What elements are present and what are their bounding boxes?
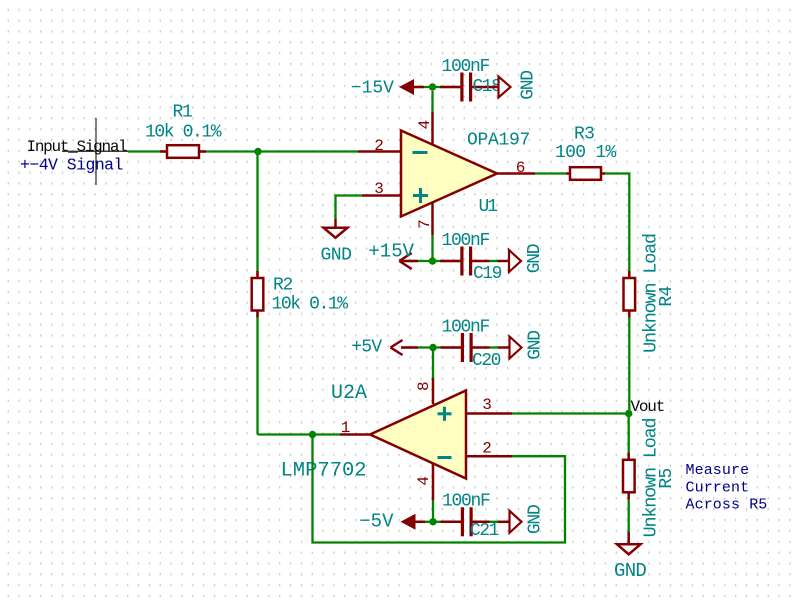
wire input net bbox=[62, 150, 358, 152]
wire C20 to GND flag bbox=[490, 346, 499, 348]
op-amp U2A pin 4 bbox=[432, 462, 435, 500]
wire feedback loop bbox=[313, 435, 566, 543]
svg-text:Vout: Vout bbox=[631, 398, 665, 416]
junction -5V node bbox=[429, 518, 436, 525]
svg-text:GND: GND bbox=[525, 244, 545, 273]
wire R2 branch bbox=[256, 152, 258, 435]
wire R5 to GND bbox=[628, 500, 630, 533]
resistor R2 bbox=[252, 271, 264, 318]
svg-text:GND: GND bbox=[519, 71, 539, 100]
junction +5V node bbox=[429, 344, 436, 351]
wire U2A pin3 to Vout bbox=[512, 412, 629, 414]
svg-text:100 1%: 100 1% bbox=[555, 143, 617, 163]
svg-text:C19: C19 bbox=[473, 264, 502, 284]
resistor R4 bbox=[624, 271, 636, 318]
resistor R3 bbox=[566, 167, 605, 180]
svg-text:+−4V Signal: +−4V Signal bbox=[20, 156, 123, 175]
ground flag (C21) bbox=[498, 511, 522, 533]
junction U2A pin1 node bbox=[309, 431, 316, 438]
power -15V rail bbox=[414, 86, 461, 88]
text Measure Current Across R5 bbox=[686, 462, 768, 514]
svg-text:7: 7 bbox=[416, 220, 434, 229]
power flag -15V bbox=[399, 79, 414, 95]
svg-text:3: 3 bbox=[374, 180, 383, 198]
op-amp U2A pin 3 bbox=[466, 412, 512, 415]
svg-text:R3: R3 bbox=[574, 125, 594, 145]
wire U1 pin3 to GND bbox=[336, 196, 363, 220]
wire R3 to right rail bbox=[605, 174, 629, 272]
svg-text:1: 1 bbox=[341, 419, 350, 437]
U1 minus mark bbox=[413, 151, 428, 154]
resistor R5 bbox=[623, 453, 635, 500]
svg-text:GND: GND bbox=[526, 505, 546, 534]
svg-text:3: 3 bbox=[482, 396, 491, 414]
svg-text:10k 0.1%: 10k 0.1% bbox=[272, 295, 349, 315]
junction +15V node bbox=[429, 257, 436, 264]
svg-text:100nF: 100nF bbox=[442, 231, 490, 251]
ground flag (C20) bbox=[498, 337, 522, 359]
ground symbol (bottom) bbox=[617, 532, 641, 554]
svg-text:100nF: 100nF bbox=[442, 492, 490, 512]
cursor crosshair bbox=[95, 118, 97, 185]
op-amp U1 pin 4 bbox=[431, 112, 434, 144]
op-amp U2A body bbox=[370, 391, 466, 479]
op-amp U2A pin 8 bbox=[432, 378, 435, 404]
wire U1 out to R3 bbox=[535, 172, 566, 174]
svg-text:Across R5: Across R5 bbox=[686, 497, 768, 514]
wire R2 to U2A pin1 bbox=[258, 433, 313, 435]
wire C21 to GND flag bbox=[490, 521, 499, 523]
capacitor C21 bbox=[461, 507, 490, 536]
svg-text:−5V: −5V bbox=[359, 511, 394, 533]
resistor R1 bbox=[160, 145, 206, 158]
wire Vout to R5 bbox=[628, 414, 630, 453]
svg-text:R2: R2 bbox=[273, 276, 293, 296]
svg-text:LMP7702: LMP7702 bbox=[281, 460, 367, 483]
svg-text:GND: GND bbox=[614, 560, 646, 582]
op-amp U1 pin 7 bbox=[431, 203, 434, 236]
wire U2A pin1 bbox=[313, 433, 341, 435]
svg-text:U2A: U2A bbox=[331, 382, 367, 405]
svg-text:100nF: 100nF bbox=[442, 57, 490, 77]
wire U1 pin7 bbox=[431, 235, 433, 261]
power flag +15V bbox=[399, 253, 411, 269]
op-amp U1 pin 3 bbox=[362, 194, 401, 197]
wire U1 pin4 bbox=[431, 91, 433, 112]
wire U2A pin8 bbox=[432, 351, 434, 378]
svg-text:U1: U1 bbox=[479, 197, 498, 217]
power +15V rail bbox=[400, 260, 461, 262]
svg-text:Current: Current bbox=[686, 480, 750, 497]
wire U2A pin4 bbox=[432, 500, 434, 521]
svg-text:10k 0.1%: 10k 0.1% bbox=[145, 123, 222, 143]
svg-text:2: 2 bbox=[374, 137, 383, 155]
svg-text:C21: C21 bbox=[470, 521, 499, 541]
ground flag (C19) bbox=[498, 250, 522, 272]
svg-text:R1: R1 bbox=[173, 103, 193, 123]
op-amp U1 body bbox=[401, 131, 497, 217]
svg-text:C20: C20 bbox=[472, 351, 501, 371]
power flag +5V bbox=[391, 340, 403, 355]
svg-text:R4: R4 bbox=[657, 286, 677, 306]
power +5V rail bbox=[401, 346, 461, 348]
svg-text:4: 4 bbox=[416, 120, 434, 129]
junction -15V node bbox=[429, 83, 436, 90]
svg-text:Measure: Measure bbox=[686, 462, 750, 479]
wire R4 to Vout bbox=[628, 318, 630, 414]
svg-text:GND: GND bbox=[526, 331, 546, 360]
svg-text:OPA197: OPA197 bbox=[467, 130, 530, 150]
U2A plus mark bbox=[438, 407, 452, 421]
svg-text:2: 2 bbox=[482, 440, 491, 458]
op-amp U1 pin 6 bbox=[497, 172, 535, 175]
ground symbol (U1 pin3) bbox=[324, 219, 348, 238]
svg-text:+15V: +15V bbox=[368, 241, 414, 263]
svg-text:8: 8 bbox=[415, 382, 433, 391]
ground flag (C18) bbox=[489, 77, 511, 98]
svg-text:+5V: +5V bbox=[351, 338, 382, 358]
op-amp U2A pin 1 bbox=[340, 433, 371, 436]
op-amp U1 pin 2 bbox=[358, 150, 401, 153]
capacitor C18 bbox=[460, 73, 489, 102]
svg-text:6: 6 bbox=[516, 159, 525, 177]
capacitor C20 bbox=[461, 333, 490, 362]
power flag -5V bbox=[401, 514, 416, 530]
wire C19 to GND flag bbox=[489, 260, 498, 262]
U1 plus mark bbox=[413, 188, 428, 203]
svg-text:4: 4 bbox=[415, 477, 433, 486]
junction Vout node bbox=[625, 410, 632, 417]
capacitor C19 bbox=[460, 247, 489, 276]
junction input node bbox=[254, 148, 261, 155]
svg-text:−15V: −15V bbox=[351, 79, 394, 99]
op-amp U2A pin 2 bbox=[466, 455, 512, 458]
power -5V rail bbox=[416, 521, 462, 523]
svg-text:100nF: 100nF bbox=[442, 318, 490, 338]
svg-text:Input_Signal: Input_Signal bbox=[27, 138, 128, 156]
svg-text:R5: R5 bbox=[657, 468, 677, 488]
svg-text:GND: GND bbox=[321, 246, 352, 266]
U2A minus mark bbox=[438, 456, 452, 459]
